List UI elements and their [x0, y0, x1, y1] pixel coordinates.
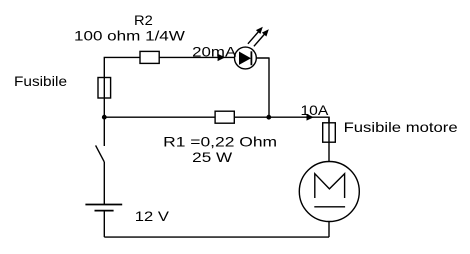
wire R1 to node B [234, 116, 268, 118]
svg-text:R1 =0,22 Ohm: R1 =0,22 Ohm [163, 133, 277, 149]
wire switch to battery [103, 162, 105, 205]
svg-text:10A: 10A [301, 102, 330, 118]
battery B1 positive plate [85, 204, 122, 206]
svg-text:Fusibile motore: Fusibile motore [344, 119, 458, 135]
switch S1 blade [96, 145, 105, 162]
battery B1 negative plate [95, 210, 114, 212]
svg-text:R2: R2 [134, 12, 153, 28]
LED D1 cathode bar [250, 51, 252, 65]
LED light arrow 1 [248, 31, 260, 44]
bottom rail wire [104, 236, 329, 238]
LED light arrow 2 [254, 33, 266, 46]
svg-text:Fusibile: Fusibile [14, 73, 67, 89]
resistor R1 [215, 111, 234, 123]
motor M1 letter M [315, 174, 345, 198]
resistor R2 [140, 51, 159, 63]
wire node A to switch [103, 117, 105, 146]
wire through fuse F2 to motor [328, 117, 330, 161]
wire top-left horizontal (node to R2) [104, 57, 140, 77]
wire R2 to LED [159, 56, 234, 58]
motor M1 circle [299, 162, 359, 222]
svg-text:20mA: 20mA [192, 43, 237, 59]
current arrow 20mA [218, 54, 226, 61]
wire node B to motor fuse [269, 117, 329, 123]
current arrow 10A [307, 114, 314, 121]
fuse F2 body [323, 123, 336, 142]
fuse F1 body [98, 78, 111, 99]
svg-text:25 W: 25 W [192, 149, 233, 165]
LED D1 triangle [239, 52, 251, 65]
node B junction dot [266, 115, 271, 120]
svg-text:12 V: 12 V [135, 208, 170, 224]
wire battery to bottom rail [103, 211, 105, 238]
LED D1 circle [235, 47, 257, 69]
wire node A to R1 [104, 116, 215, 118]
wire LED to right corner, down to node B [256, 57, 269, 117]
wire motor to bottom [328, 222, 330, 238]
wire through fuse F1 [103, 78, 105, 118]
node A junction dot [102, 115, 107, 120]
svg-text:100 ohm 1/4W: 100 ohm 1/4W [74, 27, 186, 43]
motor M1 underline [314, 206, 345, 208]
